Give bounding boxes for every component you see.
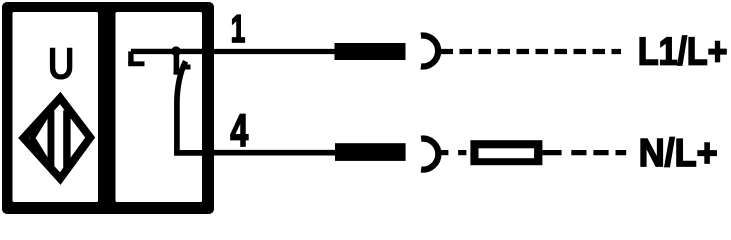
- dash before fuse: [458, 150, 466, 155]
- wire pin1 internal: [131, 49, 214, 54]
- proximity sensor diamond symbol: [24, 98, 91, 179]
- wire pin1 external: [214, 49, 336, 54]
- fuse F1 body: [470, 140, 542, 165]
- wire pin4 external: [214, 150, 336, 156]
- svg-text:4: 4: [230, 105, 248, 156]
- wire stub after bottom arc: [439, 150, 449, 155]
- left compartment (white): [13, 12, 99, 202]
- fixed contact foot: [174, 70, 183, 74]
- switch blade: [177, 61, 186, 153]
- svg-text:N/L+: N/L+: [639, 132, 718, 175]
- svg-text:1: 1: [231, 8, 246, 51]
- diode triangle sides: [33, 112, 49, 163]
- contact hook vertical: [128, 51, 133, 63]
- dashed line top: [441, 49, 622, 54]
- sensor body outer box: [2, 2, 214, 214]
- fixed contact stub: [174, 51, 180, 74]
- socket arc bottom: [421, 139, 438, 170]
- right compartment (white): [116, 12, 203, 202]
- fuse right lead: [542, 150, 561, 155]
- connector ferrule top: [335, 43, 406, 60]
- diode triangle base bar: [48, 111, 55, 167]
- svg-text:L1/L+: L1/L+: [638, 31, 728, 74]
- dashed line bottom: [571, 150, 626, 155]
- socket arc top: [421, 36, 438, 67]
- blade arrow crossbar: [183, 65, 191, 70]
- svg-text:U: U: [48, 38, 75, 89]
- contact hook foot: [128, 61, 144, 66]
- junction dot: [171, 46, 181, 56]
- connector ferrule bottom: [335, 143, 406, 161]
- wire pin4 internal: [174, 150, 214, 156]
- diode cathode bar: [63, 110, 70, 167]
